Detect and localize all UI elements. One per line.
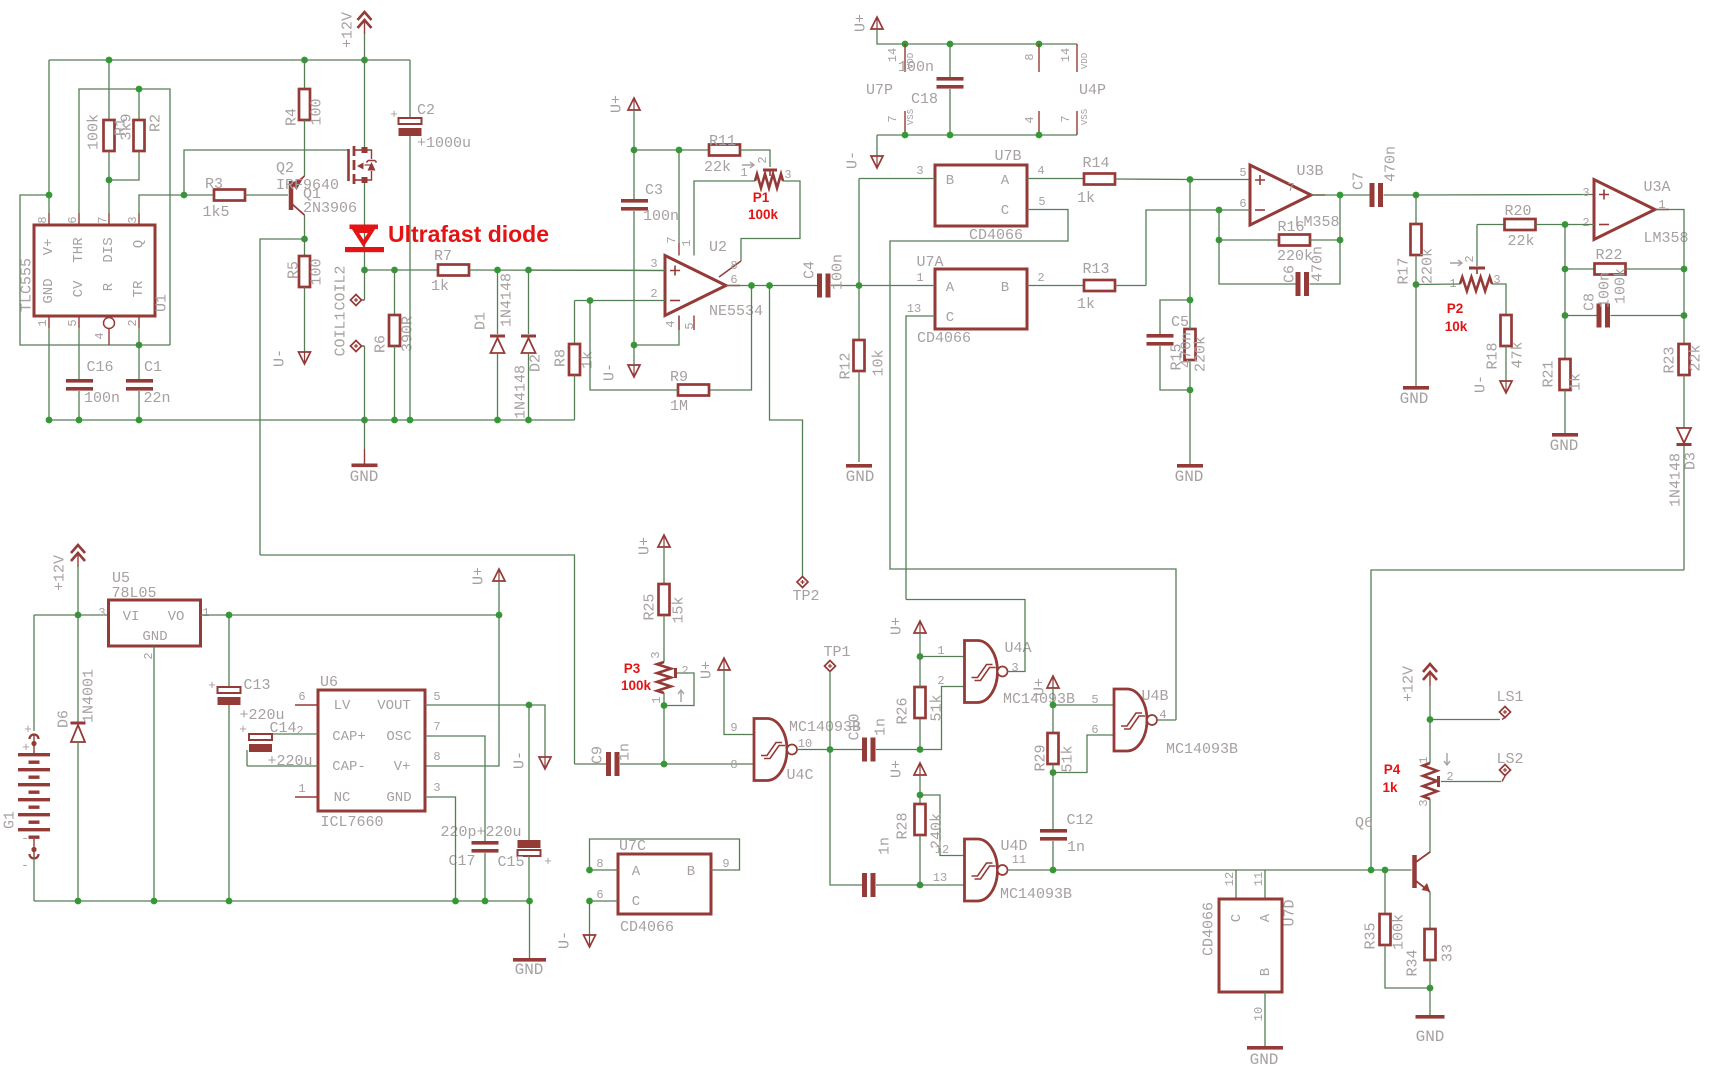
flag U+ above C3 [628, 98, 640, 110]
svg-text:470n: 470n [1310, 246, 1327, 282]
junction C8 left [1562, 312, 1569, 319]
ground symbol U7D [1247, 1046, 1283, 1069]
U4P pin number 14 [1059, 48, 1073, 62]
svg-text:A: A [1001, 173, 1010, 189]
svg-text:14: 14 [886, 48, 900, 62]
U1 pin number 8 [36, 216, 50, 223]
svg-text:R35: R35 [1363, 922, 1380, 949]
svg-text:8: 8 [596, 857, 603, 871]
svg-text:U2: U2 [709, 239, 727, 256]
junction D2 rail [525, 417, 532, 424]
svg-text:C: C [1229, 914, 1245, 922]
U3A pin number 1 [1658, 198, 1665, 212]
svg-text:R13: R13 [1082, 261, 1109, 278]
svg-text:C: C [946, 310, 954, 326]
label R23 value [1688, 344, 1705, 371]
svg-text:C4: C4 [802, 261, 819, 279]
capacitor C5 [1147, 300, 1191, 390]
label P4 arrow [1444, 753, 1450, 765]
svg-text:+12V: +12V [52, 555, 69, 591]
junction R2 top [136, 86, 143, 93]
junction U7P vdd [902, 41, 909, 48]
label R28 value [929, 813, 946, 849]
junction pin6 node [1216, 207, 1223, 214]
wire U4A out [906, 600, 1025, 672]
wire VSS rail [877, 134, 1077, 136]
label U6 [320, 674, 338, 691]
junction U3P vss [1036, 132, 1043, 139]
label P1 value [748, 207, 779, 222]
wire U7A pin13 [906, 316, 935, 600]
svg-text:U7C: U7C [619, 838, 646, 855]
svg-text:1: 1 [36, 319, 50, 326]
label P3 pin2 [681, 664, 688, 678]
label R35 name [1363, 922, 1380, 949]
U4B pin number 4 [1159, 708, 1166, 722]
wire to U4A pin1 [920, 656, 965, 658]
U3P pin8 stub [1038, 44, 1040, 72]
label U3A [1643, 179, 1670, 196]
label R8 name [553, 349, 570, 367]
ground symbol R12 [846, 464, 875, 486]
svg-text:VDD: VDD [1080, 53, 1090, 69]
junction D1 top [494, 267, 501, 274]
capacitor C1 [126, 345, 153, 420]
wire feedback R9 [709, 286, 752, 391]
wire wiper to LS2 [1441, 781, 1501, 783]
U4P label VDD [1080, 53, 1090, 69]
label R4 name [284, 108, 301, 126]
junction R34 bottom [1427, 985, 1434, 992]
label R18 value [1510, 341, 1527, 368]
label R2 name [148, 114, 165, 132]
wire U3B out [1311, 194, 1370, 196]
U4C pin number 9 [730, 721, 737, 735]
label R13 value [1077, 296, 1095, 313]
svg-text:R17: R17 [1396, 257, 1413, 284]
svg-text:1k: 1k [1568, 373, 1585, 391]
connector LS1 [1500, 707, 1511, 720]
label R14 name [1082, 155, 1109, 172]
testpoint TP1 [825, 661, 836, 750]
svg-text:Q: Q [131, 240, 147, 248]
label R22 name [1595, 247, 1622, 264]
capacitor C16 [66, 328, 93, 420]
svg-text:22n: 22n [143, 390, 170, 407]
U5 label VO [168, 609, 185, 625]
svg-text:+: + [22, 740, 30, 755]
svg-text:U-: U- [602, 363, 619, 381]
junction U- node [631, 342, 638, 349]
label P4 pin2 [1446, 770, 1453, 784]
label R16 name [1277, 219, 1304, 236]
svg-text:D6: D6 [56, 710, 73, 728]
U7P pin number 7 [886, 115, 900, 122]
resistor R5 [299, 239, 310, 352]
svg-text:1n: 1n [617, 743, 634, 761]
junction P3 wiper [661, 702, 668, 709]
svg-text:GND: GND [1550, 437, 1579, 455]
diode D1 [490, 270, 505, 420]
junction U6gnd rail [452, 898, 459, 905]
label TP1 [823, 644, 850, 661]
label R7 value [431, 278, 449, 295]
mosfet Q2 IRF9640 [349, 146, 377, 184]
label R23 name [1662, 346, 1679, 373]
svg-text:100n: 100n [898, 59, 934, 76]
U6 label CAP+ [332, 729, 366, 745]
resistor R17 [1411, 195, 1422, 285]
svg-text:R2: R2 [148, 114, 165, 132]
svg-text:11: 11 [1012, 853, 1026, 867]
junction diode node [361, 267, 368, 274]
label R6 name [373, 335, 390, 353]
U3P pin number 8 [1023, 53, 1037, 60]
junction C18 bot [947, 132, 954, 139]
U4P pin7 stub [1076, 111, 1078, 135]
svg-text:DIS: DIS [101, 237, 117, 262]
svg-text:C2: C2 [417, 102, 435, 119]
svg-text:100k: 100k [1391, 914, 1408, 950]
U4D pin number 11 [1012, 853, 1026, 867]
label C5 [1171, 314, 1189, 331]
svg-text:R: R [101, 282, 117, 291]
svg-text:7: 7 [433, 720, 440, 734]
+12V flag Q6 [1423, 664, 1437, 720]
transistor Q1 2N3906 [291, 176, 305, 215]
svg-text:TR: TR [131, 280, 147, 297]
U1 pin4 reset circle [104, 316, 115, 345]
capacitor C12 [1040, 773, 1067, 871]
ground symbol R17 [1400, 285, 1429, 409]
svg-text:2: 2 [937, 674, 944, 688]
label R8 value [580, 351, 597, 369]
label C14 plus [239, 722, 247, 737]
IC U7D box [1219, 899, 1282, 992]
wire gate feed [184, 150, 349, 195]
label C2 [417, 102, 435, 119]
resistor R26 [915, 657, 926, 750]
svg-text:1: 1 [680, 239, 694, 246]
junction C18 top [947, 41, 954, 48]
junction pin1 rail [46, 417, 53, 424]
U1 label DIS [101, 237, 117, 262]
junction R6 top [391, 267, 398, 274]
svg-text:1: 1 [650, 696, 664, 703]
U6 pin number 6 [298, 690, 305, 704]
nand gate U4A [965, 641, 1008, 703]
svg-text:C6: C6 [1282, 265, 1299, 283]
svg-text:C13: C13 [243, 677, 270, 694]
junction D6 rail [75, 898, 82, 905]
svg-text:7: 7 [886, 115, 900, 122]
svg-text:51k: 51k [1060, 745, 1077, 772]
svg-text:8: 8 [730, 259, 737, 273]
junction R29 bottom [1050, 769, 1057, 776]
U2 pin number 5 [683, 322, 697, 329]
svg-text:LS1: LS1 [1496, 689, 1523, 706]
svg-text:GND: GND [350, 468, 379, 486]
potentiometer P2 [1460, 225, 1492, 292]
label C14 value [267, 753, 312, 770]
svg-text:8: 8 [1023, 53, 1037, 60]
U7A pin number 13 [907, 302, 921, 316]
svg-text:1k: 1k [1077, 296, 1095, 313]
wire U7B pin4 [1027, 178, 1084, 180]
svg-text:R3: R3 [205, 176, 223, 193]
flag U+ U4C [718, 658, 730, 670]
resistor R2 [109, 89, 145, 180]
svg-text:R29: R29 [1033, 744, 1050, 771]
flag U+ power [871, 17, 883, 29]
flag U- below C3 [628, 345, 640, 377]
junction base node 1 [1368, 867, 1375, 874]
svg-text:U-: U- [512, 751, 529, 769]
label R5 name [286, 261, 303, 279]
svg-text:U+: U+ [889, 617, 906, 635]
capacitor C13 [218, 615, 241, 901]
svg-text:100: 100 [309, 98, 326, 125]
svg-text:4: 4 [1023, 116, 1037, 123]
label C17+C15 values [440, 824, 521, 841]
label P3 pin3 [649, 651, 663, 658]
diode D2 [521, 270, 536, 420]
capacitor C14 [247, 734, 318, 766]
label C15 [497, 854, 524, 871]
svg-text:8: 8 [36, 216, 50, 223]
svg-text:C16: C16 [86, 359, 113, 376]
U7C pin number 6 [596, 888, 603, 902]
svg-text:U+: U+ [853, 14, 870, 32]
svg-text:5: 5 [683, 322, 697, 329]
wire Q1 collector down [304, 215, 306, 239]
wire inv column [1564, 225, 1566, 360]
wire P2 pin1 [1416, 283, 1460, 286]
label U3A LM358 [1643, 230, 1688, 247]
wire V+ left drop to pin8 [48, 60, 50, 213]
flag U+ 5V [493, 569, 505, 581]
label 78L05 [111, 585, 156, 602]
svg-text:8: 8 [730, 758, 737, 772]
resistor R35 [1380, 870, 1431, 988]
wire out column [1683, 269, 1685, 344]
label R20 name [1504, 203, 1531, 220]
svg-text:COIL2: COIL2 [333, 265, 350, 310]
label R18 name [1485, 342, 1502, 369]
wire P2 pin3 [1492, 284, 1506, 315]
label U3B LM358 [1294, 214, 1339, 231]
svg-text:U+: U+ [1032, 678, 1049, 696]
svg-text:C18: C18 [911, 91, 938, 108]
wire U7C pin8 [590, 869, 619, 871]
svg-text:R4: R4 [284, 108, 301, 126]
svg-text:10k: 10k [871, 349, 888, 376]
nand gate U4D [965, 839, 1008, 901]
svg-text:1k: 1k [580, 351, 597, 369]
resistor R14 [1084, 174, 1190, 185]
junction U7P vss [902, 132, 909, 139]
label U+ U4A [889, 617, 906, 635]
label C3 value [643, 208, 679, 225]
label U4B MC14093B [1166, 741, 1238, 758]
U4A pin number 1 [937, 644, 944, 658]
U7D label B [1258, 968, 1274, 976]
svg-text:8: 8 [433, 750, 440, 764]
svg-text:390R: 390R [400, 316, 417, 352]
wire U6 VOUT [425, 704, 529, 706]
+12V flag top [358, 12, 372, 60]
wire bottom gnd rail [49, 419, 575, 421]
svg-text:U+: U+ [471, 567, 488, 585]
wire +12V rail top [49, 59, 410, 61]
label U4D MC14093B [1000, 886, 1072, 903]
label P1 arrow [742, 162, 754, 168]
junction R28 bottom [917, 882, 924, 889]
U2 pin number 6 [730, 273, 737, 287]
wire 12V to Q2 top [364, 60, 366, 147]
label C12 value [1067, 839, 1085, 856]
label C10 value [873, 718, 890, 736]
svg-text:3: 3 [784, 168, 791, 182]
label R11 name [709, 133, 736, 150]
U6 label GND [386, 790, 411, 806]
wire U5 out rail [201, 614, 500, 616]
svg-text:+220u: +220u [267, 753, 312, 770]
svg-text:TP1: TP1 [823, 644, 850, 661]
svg-text:P4: P4 [1384, 762, 1401, 777]
U7P pin14 stub [904, 44, 906, 72]
transistor Q6 [1415, 852, 1431, 892]
wire U+ to node [633, 110, 635, 150]
junction R26 top [917, 653, 924, 660]
label R2 value [119, 113, 136, 140]
U4B pin number 5 [1091, 693, 1098, 707]
junction 12V rail [75, 612, 82, 619]
label R6 value [400, 316, 417, 352]
wire U7D pin10 [1264, 992, 1266, 1046]
U3P pin4 stub [1038, 111, 1040, 135]
resistor R29 [1048, 705, 1059, 773]
label P1 pin1 [740, 166, 747, 180]
svg-text:C: C [632, 894, 640, 910]
label R26 value [929, 694, 946, 721]
svg-text:LM358: LM358 [1643, 230, 1688, 247]
svg-text:ICL7660: ICL7660 [320, 814, 383, 831]
U6 label V+ [394, 759, 411, 775]
wire VI rail [34, 614, 109, 616]
svg-text:+: + [544, 854, 552, 869]
junction R22 left [1562, 266, 1569, 273]
wire to R11 [634, 149, 709, 151]
U4P pin number 7 [1059, 115, 1073, 122]
svg-text:1: 1 [298, 782, 305, 796]
U3B pin number 5 [1239, 166, 1246, 180]
junction pin7 node [676, 147, 683, 154]
U4D pin number 12 [935, 843, 949, 857]
resistor R20 [1477, 219, 1594, 230]
svg-text:A: A [1258, 913, 1274, 922]
label U4B [1141, 688, 1168, 705]
U6 pin1 stub [295, 796, 318, 798]
label +12V Q6 [1401, 666, 1418, 702]
svg-text:2N3906: 2N3906 [303, 200, 357, 217]
label TP2 [792, 588, 819, 605]
svg-text:THR: THR [71, 237, 87, 263]
svg-text:3: 3 [650, 257, 657, 271]
label R25 value [671, 596, 688, 623]
wire THR loop [79, 89, 170, 345]
svg-text:B: B [1001, 280, 1009, 296]
svg-text:2: 2 [756, 156, 770, 163]
U1 pin number 4 [93, 332, 107, 339]
IC U7A box [935, 269, 1027, 329]
+12V flag battery [71, 545, 85, 615]
wire pin1 to gnd rail [48, 328, 50, 420]
junction C12 bottom [1050, 867, 1057, 874]
wire pin2 to node [138, 328, 140, 345]
svg-text:C: C [1001, 203, 1009, 219]
label R28 name [895, 812, 912, 839]
capacitor C9 [575, 752, 665, 776]
resistor R25 [659, 547, 670, 662]
svg-text:11: 11 [1252, 872, 1266, 886]
svg-text:1: 1 [1417, 756, 1431, 763]
U7C pin number 8 [596, 857, 603, 871]
label U+ P3 [699, 661, 716, 679]
resistor R3 [184, 190, 288, 201]
svg-text:1: 1 [937, 644, 944, 658]
ultrafast diode red symbol [345, 225, 384, 253]
label U- VOUT [512, 751, 529, 769]
resistor R22 [1565, 264, 1684, 275]
resistor R16 [1219, 235, 1340, 246]
label P2 arrow [1450, 260, 1462, 266]
U4C pin number 10 [798, 737, 812, 751]
wire R7 row [365, 269, 439, 271]
svg-text:+12V: +12V [1401, 666, 1418, 702]
svg-text:G1: G1 [2, 811, 19, 829]
svg-text:+: + [390, 107, 398, 122]
connector COIL1 [351, 341, 365, 421]
svg-text:U7P: U7P [866, 82, 893, 99]
wire to U4B pin5 [1053, 704, 1114, 706]
resistor R18 [1501, 315, 1512, 381]
U6 pin number 8 [433, 750, 440, 764]
U4A pin number 2 [937, 674, 944, 688]
op-amp U2 NE5534 [665, 256, 740, 316]
svg-text:R34: R34 [1405, 949, 1422, 976]
svg-text:9: 9 [722, 857, 729, 871]
U7A label B [1001, 280, 1009, 296]
wire U7C pin6 [590, 900, 619, 902]
svg-text:33: 33 [1440, 944, 1457, 962]
potentiometer P4 [1423, 720, 1439, 800]
U7D pin number 12 [1223, 872, 1237, 886]
U7A pin number 2 [1037, 271, 1044, 285]
label P3 arrow [678, 690, 684, 702]
svg-text:C7: C7 [1351, 172, 1368, 190]
label COIL2 [333, 265, 350, 310]
U6 label NC [334, 790, 351, 806]
label U4A MC14093B [1003, 691, 1075, 708]
svg-text:R14: R14 [1082, 155, 1109, 172]
svg-text:100n: 100n [643, 208, 679, 225]
svg-text:D3: D3 [1683, 452, 1700, 470]
svg-text:100n: 100n [84, 390, 120, 407]
svg-text:Q2: Q2 [276, 160, 294, 177]
junction C3 top [631, 147, 638, 154]
resistor R9 [590, 301, 709, 396]
